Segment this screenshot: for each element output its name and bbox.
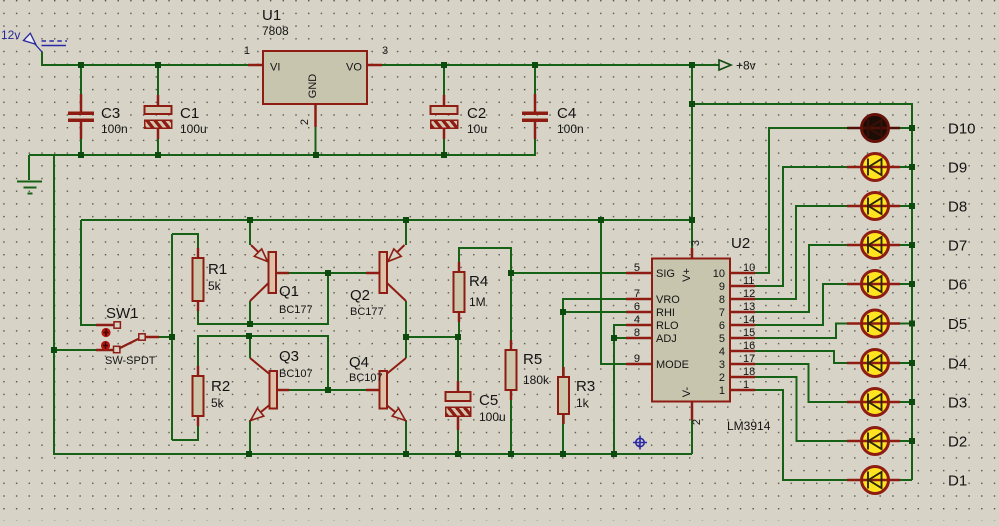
terminal +8v output	[719, 59, 756, 73]
svg-text:5: 5	[634, 262, 640, 274]
wire D8 cathode to rail	[900, 205, 912, 207]
svg-text:VRO: VRO	[656, 294, 680, 306]
junction	[598, 217, 604, 223]
junction	[560, 309, 566, 315]
svg-text:6: 6	[719, 320, 725, 332]
capacitor C1 leads	[157, 65, 159, 96]
junction	[78, 62, 84, 68]
resistor R2	[193, 366, 231, 426]
wire D4 cathode to rail	[900, 362, 912, 364]
svg-text:D4: D4	[948, 356, 967, 373]
wire Q3 emitter to bottom rail	[249, 420, 251, 454]
svg-text:D2: D2	[948, 434, 967, 451]
junction D3 cathode rail	[909, 399, 915, 405]
capacitor C2 leads	[443, 65, 445, 96]
wire ground to switch bottom throw	[54, 349, 96, 351]
capacitor C3	[68, 94, 128, 139]
svg-text:10: 10	[713, 268, 725, 280]
svg-text:11: 11	[743, 275, 754, 287]
wire node to R4 bottom / C5	[406, 336, 458, 338]
junction	[403, 334, 409, 340]
wire Q4 emitter to bottom rail	[405, 420, 407, 454]
svg-text:MODE: MODE	[656, 359, 689, 371]
wire C5 top lead	[457, 337, 459, 381]
wire U2 pin to D5	[755, 324, 847, 339]
junction	[455, 334, 461, 340]
LED D9	[847, 154, 900, 181]
svg-text:R5: R5	[523, 351, 542, 368]
U2 pin 11 (L9)	[719, 275, 755, 293]
wire R2 bottom to column	[172, 416, 198, 440]
svg-text:7: 7	[719, 307, 725, 319]
svg-text:SW1: SW1	[106, 305, 139, 322]
wire Q3 collector up	[249, 336, 251, 358]
wire D5 cathode to rail	[900, 322, 912, 324]
junction D2 cathode rail	[909, 438, 915, 444]
resistor R5	[506, 340, 551, 400]
resistor R4	[454, 262, 489, 322]
svg-text:V-: V-	[681, 386, 693, 397]
svg-text:4: 4	[719, 346, 725, 358]
U2 pin 14 (L6)	[719, 314, 755, 332]
wire Q1 collector down	[249, 301, 251, 324]
svg-text:C2: C2	[467, 105, 486, 122]
wire +8v rail down to U2 V+ pin 3	[691, 65, 693, 248]
svg-text:C5: C5	[479, 392, 498, 409]
svg-text:3: 3	[382, 45, 388, 57]
svg-text:R1: R1	[208, 261, 227, 278]
junction	[313, 152, 319, 158]
junction D9 cathode rail	[909, 164, 915, 170]
svg-text:LM3914: LM3914	[727, 419, 771, 433]
ground	[17, 182, 42, 194]
svg-text:D7: D7	[948, 238, 967, 255]
wire R3 bottom to rail	[562, 414, 564, 454]
junction	[325, 387, 331, 393]
LED D5	[847, 310, 900, 337]
wire Q2 collector to node	[405, 301, 407, 337]
svg-text:5k: 5k	[208, 279, 222, 293]
capacitor C4 leads	[534, 65, 536, 95]
wire LED anode feed from +8v column	[692, 104, 912, 480]
junction	[560, 451, 566, 457]
svg-text:1k: 1k	[576, 396, 590, 410]
svg-text:Q1: Q1	[279, 283, 299, 300]
capacitor C3 leads	[80, 65, 82, 95]
wire U2 RHI pin 6 tie	[563, 311, 626, 313]
U2 pin 16 (L4)	[719, 340, 755, 358]
svg-text:9: 9	[719, 281, 725, 293]
junction	[155, 62, 161, 68]
wire R1 bottom to base node of Q1 Q2	[198, 273, 328, 324]
LED D2	[847, 428, 900, 455]
svg-text:5: 5	[719, 333, 725, 345]
wire U2 pin to D7	[755, 245, 847, 312]
wire +V rail of multivibrator y=220	[81, 219, 692, 221]
svg-text:U1: U1	[262, 7, 281, 24]
svg-text:D10: D10	[948, 121, 976, 138]
wire U2 MODE pin 9 to +V rail	[601, 220, 626, 364]
svg-text:C4: C4	[557, 105, 576, 122]
svg-text:BC107: BC107	[349, 372, 383, 384]
junction	[78, 152, 84, 158]
svg-text:10: 10	[743, 262, 755, 274]
svg-text:1M: 1M	[469, 295, 486, 309]
svg-text:14: 14	[743, 314, 755, 326]
U2 pin 9 MODE	[626, 353, 689, 371]
U2 pin 13 (L7)	[719, 301, 755, 319]
U2 pin 1 (L1)	[719, 379, 755, 397]
svg-text:Q2: Q2	[350, 287, 370, 304]
wire R1/R2 vertical column x=172	[171, 234, 173, 440]
wire U2 pin to D10	[755, 128, 847, 273]
junction	[441, 152, 447, 158]
terminal 12v input	[1, 28, 67, 52]
IC U2 LM3914	[652, 235, 771, 433]
wire C5 bottom to rail	[457, 429, 459, 454]
svg-text:100n: 100n	[557, 122, 584, 136]
svg-text:7: 7	[634, 288, 640, 300]
switch SW1 SW-SPDT	[96, 305, 159, 367]
capacitor C5 (electrolytic)	[446, 381, 506, 430]
svg-text:BC177: BC177	[350, 306, 384, 318]
svg-text:9: 9	[634, 353, 640, 365]
junction	[455, 451, 461, 457]
U2 pin 4 RLO	[626, 314, 679, 332]
junction	[247, 217, 253, 223]
junction	[51, 347, 57, 353]
svg-text:R2: R2	[211, 378, 230, 395]
svg-text:VO: VO	[346, 62, 362, 74]
wire U2 pin to D2	[755, 377, 847, 441]
svg-text:D6: D6	[948, 277, 967, 294]
svg-text:R4: R4	[469, 273, 488, 290]
U2 pin 18 (L2)	[719, 366, 755, 384]
LED D1	[847, 467, 900, 494]
LED D7	[847, 232, 900, 259]
wire column to R1 top	[172, 234, 198, 258]
wire rail to switch top throw	[81, 220, 96, 325]
LED D10	[847, 115, 900, 142]
wire R4 top jog to SIG node	[459, 248, 511, 273]
junction D8 cathode rail	[909, 203, 915, 209]
wire U2 pin to D3	[755, 364, 847, 402]
svg-text:D5: D5	[948, 316, 967, 333]
svg-text:4: 4	[634, 314, 640, 326]
wire D9 cathode to rail	[900, 166, 912, 168]
svg-text:6: 6	[634, 301, 640, 313]
svg-text:SW-SPDT: SW-SPDT	[105, 355, 156, 367]
wire D10 cathode to rail	[900, 127, 912, 129]
wire R4 bottom to node	[458, 312, 460, 337]
svg-text:100u: 100u	[180, 122, 207, 136]
junction D4 cathode rail	[909, 360, 915, 366]
transistor Q4 (NPN)	[349, 354, 406, 421]
wire switch pole to R1/R2 column	[159, 336, 172, 338]
LED D6	[847, 271, 900, 298]
svg-text:Q4: Q4	[349, 354, 369, 371]
svg-text:18: 18	[743, 366, 755, 378]
svg-text:2: 2	[691, 419, 703, 425]
U2 pin 8 ADJ	[626, 327, 677, 345]
junction	[508, 270, 514, 276]
svg-text:2: 2	[299, 119, 311, 125]
svg-text:3: 3	[719, 359, 725, 371]
svg-text:RLO: RLO	[656, 320, 679, 332]
origin marker	[633, 436, 647, 450]
U2 pin 3 V+	[681, 240, 702, 282]
svg-text:BC107: BC107	[279, 368, 313, 380]
junction	[403, 451, 409, 457]
svg-text:+8v: +8v	[736, 59, 756, 73]
wire D1 cathode to rail	[900, 479, 912, 481]
junction D7 cathode rail	[909, 242, 915, 248]
junction	[325, 270, 331, 276]
svg-text:D9: D9	[948, 160, 967, 177]
resistor R3	[558, 367, 595, 424]
wire D3 cathode to rail	[900, 401, 912, 403]
svg-text:RHI: RHI	[656, 307, 675, 319]
voltage regulator U1 7808	[248, 7, 382, 155]
wire U1 VO to +8v rail	[382, 64, 719, 66]
transistor Q1 (PNP)	[250, 245, 313, 316]
svg-text:13: 13	[743, 301, 755, 313]
wire R5 bottom to rail	[510, 390, 512, 454]
svg-text:3: 3	[690, 240, 702, 246]
U2 pin 15 (L5)	[719, 327, 755, 345]
junction	[508, 451, 514, 457]
svg-text:C1: C1	[180, 105, 199, 122]
wire Q2 emitter to +V rail	[405, 220, 407, 245]
transistor Q2 (PNP)	[350, 245, 406, 318]
wire U2 pin to D9	[755, 167, 847, 286]
U2 pin 2 V-	[681, 386, 703, 425]
U2 pin 5 SIG	[626, 262, 675, 280]
U2 pin 7 VRO	[626, 288, 680, 306]
svg-text:7808: 7808	[262, 24, 289, 38]
U2 pin 12 (L8)	[719, 288, 755, 306]
svg-text:12v: 12v	[1, 28, 20, 42]
junction D5 cathode rail	[909, 321, 915, 327]
wire 12v to U1 VI (top rail left)	[42, 52, 248, 65]
junction	[611, 335, 617, 341]
junction D6 cathode rail	[909, 281, 915, 287]
svg-text:8: 8	[634, 327, 640, 339]
svg-text:10u: 10u	[467, 122, 487, 136]
svg-text:D1: D1	[948, 473, 967, 490]
junction	[403, 217, 409, 223]
wire Q1 emitter to +V rail	[249, 220, 251, 245]
wire U2 pin to D4	[755, 351, 847, 363]
svg-text:SIG: SIG	[656, 268, 675, 280]
wire U2 RLO pin 4 to ground column	[614, 325, 626, 454]
wire ground rail	[29, 154, 536, 156]
svg-text:100u: 100u	[479, 410, 506, 424]
svg-text:R3: R3	[576, 378, 595, 395]
wire R2 top / Q3 collector line to base node of Q3 Q4	[198, 336, 328, 390]
svg-text:D3: D3	[948, 395, 967, 412]
U2 pin 6 RHI	[626, 301, 675, 319]
svg-text:2: 2	[719, 372, 725, 384]
wire SIG node to U2 SIG pin 5	[511, 272, 626, 274]
junction	[155, 152, 161, 158]
capacitor C1 (electrolytic)	[145, 95, 207, 139]
capacitor C4	[522, 94, 584, 139]
svg-text:8: 8	[719, 294, 725, 306]
junction	[532, 62, 538, 68]
wire left vertical ground branch to bottom rail	[54, 155, 692, 454]
svg-text:16: 16	[743, 340, 755, 352]
LED D3	[847, 389, 900, 416]
wire U2 pin to D6	[755, 284, 847, 325]
junction D10 cathode rail	[909, 125, 915, 131]
wire D2 cathode to rail	[900, 440, 912, 442]
wire Q4 collector up	[405, 337, 407, 358]
svg-text:V+: V+	[681, 268, 693, 282]
transistor Q3 (NPN)	[250, 348, 313, 421]
svg-text:1: 1	[244, 45, 250, 57]
wire base link Q1-Q2	[289, 272, 366, 274]
junction	[246, 451, 252, 457]
wire base link Q3-Q4	[289, 389, 366, 391]
svg-text:C3: C3	[101, 105, 120, 122]
svg-text:ADJ: ADJ	[656, 333, 677, 345]
junction	[247, 321, 253, 327]
junction	[246, 333, 252, 339]
svg-text:1: 1	[743, 379, 749, 391]
junction	[689, 62, 695, 68]
svg-text:GND: GND	[307, 74, 319, 99]
wire SIG node down to R5 top	[510, 273, 512, 350]
svg-text:180k: 180k	[523, 373, 550, 387]
svg-text:100n: 100n	[101, 122, 128, 136]
junction	[689, 101, 695, 107]
svg-text:Q3: Q3	[279, 348, 299, 365]
svg-text:U2: U2	[731, 235, 750, 252]
wire U2 VRO pin 7 to R3 top	[563, 299, 626, 377]
svg-text:12: 12	[743, 288, 755, 300]
svg-text:VI: VI	[270, 62, 280, 74]
resistor R1	[193, 248, 228, 311]
wire U2 ADJ pin 8 tie	[614, 337, 626, 339]
svg-text:5k: 5k	[211, 396, 225, 410]
svg-text:17: 17	[743, 353, 755, 365]
svg-text:1: 1	[719, 385, 725, 397]
capacitor C2 (electrolytic)	[431, 95, 488, 139]
svg-text:15: 15	[743, 327, 755, 339]
junction	[611, 451, 617, 457]
svg-text:BC177: BC177	[279, 304, 313, 316]
wire ground stub	[28, 155, 30, 180]
wire D7 cathode to rail	[900, 244, 912, 246]
wire U2 pin to D1	[755, 390, 847, 480]
junction	[169, 334, 175, 340]
svg-text:D8: D8	[948, 199, 967, 216]
junction	[689, 217, 695, 223]
LED D4	[847, 350, 900, 377]
wire D6 cathode to rail	[900, 283, 912, 285]
wire bottom rail up to U2 V- pin 2	[691, 420, 693, 454]
junction	[441, 62, 447, 68]
U2 pin 10 (L10)	[713, 262, 756, 280]
LED D8	[847, 193, 900, 220]
wire U2 pin to D8	[755, 206, 847, 299]
U2 pin 17 (L3)	[719, 353, 755, 371]
